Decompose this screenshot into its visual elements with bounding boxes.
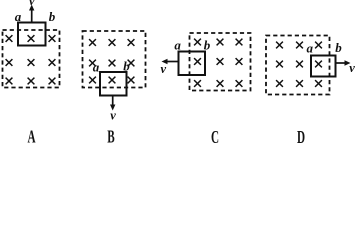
svg-text:a: a: [174, 38, 181, 53]
svg-text:A: A: [27, 128, 35, 147]
svg-text:a: a: [93, 60, 100, 75]
svg-text:v: v: [349, 61, 355, 75]
svg-text:b: b: [49, 9, 56, 24]
svg-text:b: b: [335, 40, 342, 55]
svg-text:v: v: [161, 62, 167, 76]
svg-text:B: B: [107, 128, 114, 147]
svg-text:v: v: [110, 109, 116, 123]
svg-text:v: v: [29, 0, 35, 8]
svg-text:D: D: [297, 129, 305, 148]
svg-text:a: a: [306, 41, 313, 56]
svg-text:b: b: [204, 38, 211, 53]
svg-text:b: b: [123, 59, 130, 74]
svg-text:a: a: [15, 9, 22, 24]
svg-text:C: C: [211, 129, 219, 148]
